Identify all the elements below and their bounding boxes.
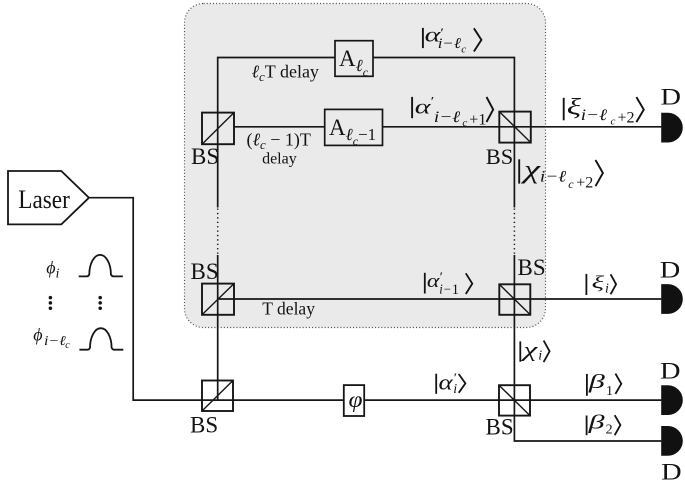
wire: T delay row to detector 2 (218, 298, 662, 300)
beam splitter BS2 (top right, in box) (486, 112, 531, 170)
svg-text:T delay: T delay (262, 298, 315, 318)
svg-text:φ: φ (349, 387, 363, 413)
detector D3 (661, 385, 683, 415)
svg-text:BS: BS (486, 144, 514, 169)
svg-text:BS: BS (518, 255, 546, 280)
attenuator A_lc (335, 41, 373, 79)
svg-text:BS: BS (486, 415, 514, 440)
svg-text:delay: delay (262, 151, 297, 168)
svg-text:c: c (65, 340, 70, 351)
svg-text:+2: +2 (618, 110, 635, 127)
svg-text:D: D (661, 85, 682, 111)
svg-text:c: c (462, 117, 467, 129)
svg-text:i: i (453, 382, 457, 397)
svg-text:(ℓc − 1)T: (ℓc − 1)T (247, 129, 311, 152)
state label alpha' i-lc+1 (412, 95, 493, 129)
detector D4 (661, 426, 683, 456)
state label chi i-lc+2 (519, 155, 603, 191)
svg-text:i−: i− (439, 281, 451, 296)
vertical dots right (98, 296, 102, 310)
svg-text:+1: +1 (469, 111, 486, 128)
svg-text:i: i (538, 349, 542, 364)
loop-mirror enclosure (gray rounded dotted box) (185, 4, 546, 328)
svg-text:β: β (587, 410, 605, 432)
state label alpha' i (436, 371, 465, 397)
state label alpha' i-lc (top) (423, 23, 482, 55)
state label beta 1 (587, 370, 621, 399)
beam splitter BS1 (top left, in box) (191, 113, 234, 169)
state label xi i-lc+2 (564, 94, 644, 127)
svg-text:1: 1 (606, 384, 613, 399)
detector D2 (661, 284, 683, 314)
svg-text:2: 2 (606, 422, 613, 437)
phase shifter (344, 385, 364, 416)
svg-text:ϕ: ϕ (33, 325, 42, 345)
svg-text:i: i (605, 281, 609, 296)
svg-text:ξ: ξ (592, 273, 605, 292)
svg-text:ξ: ξ (567, 94, 582, 120)
state label beta 2 (587, 410, 621, 437)
attenuator A_lc-1 (325, 109, 383, 148)
svg-text:i−ℓ: i−ℓ (581, 105, 608, 123)
svg-text:BS: BS (191, 144, 219, 169)
svg-text:D: D (661, 460, 682, 486)
laser source (8, 171, 89, 224)
wire: laser output, down and along bottom row to detector 3 (89, 198, 661, 400)
svg-text:+2: +2 (576, 174, 593, 191)
wire: right vertical lower solid, down to beta2 detector (514, 255, 661, 441)
svg-text:β: β (588, 370, 606, 392)
svg-text:χ: χ (520, 338, 539, 361)
svg-text:c: c (611, 116, 616, 128)
svg-text:i−ℓ: i−ℓ (44, 334, 66, 349)
wire: left vertical dotted segment (217, 209, 219, 255)
pulse symbol 1 (79, 255, 123, 277)
svg-text:i−ℓ: i−ℓ (438, 36, 462, 52)
beam splitter BS4 (bottom right, in box) (499, 255, 545, 315)
svg-text:c: c (461, 44, 466, 56)
svg-text:BS: BS (191, 259, 219, 284)
svg-text:ϕi: ϕi (46, 257, 59, 280)
svg-text:i−ℓ: i−ℓ (434, 108, 461, 126)
state label alpha' i-1 (425, 270, 473, 298)
svg-text:i−ℓ: i−ℓ (540, 167, 567, 185)
svg-text:Laser: Laser (18, 185, 70, 214)
wire: left vertical lower solid (to bottom BS) (217, 255, 219, 400)
beam splitter BS5 (bottom left, outside box) (190, 381, 233, 438)
svg-text:c: c (568, 177, 574, 191)
beam splitter BS6 (bottom right, outside box) (486, 385, 531, 439)
vertical dots left (49, 296, 53, 310)
wire: top loop (BS1 up, across, down to BS2) (218, 58, 515, 208)
svg-text:α: α (439, 371, 454, 395)
svg-text:1: 1 (452, 282, 459, 298)
svg-text:χ: χ (520, 155, 541, 184)
detector D1 (661, 113, 683, 143)
pulse symbol 2 (79, 328, 123, 350)
state label xi i (586, 273, 616, 296)
svg-text:D: D (660, 359, 681, 385)
state label chi i (520, 338, 550, 364)
svg-text:D: D (660, 257, 681, 283)
wire: second row through attenuator to detector 1 (234, 126, 661, 128)
beam splitter BS3 (bottom left, in box) (191, 259, 235, 315)
svg-text:BS: BS (190, 413, 218, 438)
wire: right vertical dotted segment (513, 209, 515, 255)
